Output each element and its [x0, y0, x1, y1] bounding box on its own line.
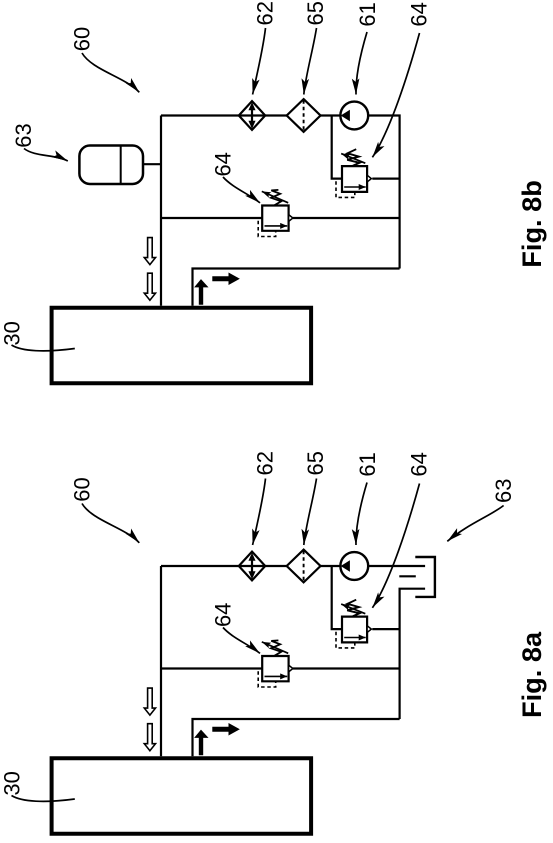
relief valve 64 pilot line (dashed) [258, 671, 276, 687]
relief valve 64 body (bypass) [342, 617, 367, 643]
bypass relief valve outlet seat triangle [367, 626, 371, 633]
filter 65 dashed element [303, 551, 305, 582]
svg-text:63: 63 [491, 478, 516, 502]
wire lower line right segment [293, 667, 400, 669]
svg-text:Fig. 8a: Fig. 8a [516, 631, 547, 718]
wire pump suction line into tank [366, 565, 425, 567]
accumulator 63 [79, 146, 143, 185]
relief valve 64 outlet seat triangle [289, 665, 293, 672]
wire bottom horizontal to box 30 [193, 719, 400, 756]
wire left vertical line [160, 566, 162, 756]
wire top line left segment (passes through filter 62) [161, 114, 287, 116]
bypass relief valve adjust arrow [341, 154, 365, 164]
leader arrow from 63 to tank [447, 506, 503, 542]
svg-text:65: 65 [303, 451, 328, 475]
solid right arrow [213, 724, 239, 735]
hollow gas-flow arrow 2 [144, 273, 155, 300]
wire bypass branch to relief valve [332, 116, 342, 179]
hollow gas-flow arrow 1 [144, 688, 155, 715]
svg-text:61: 61 [355, 452, 380, 476]
relief valve 64 pilot line (dashed) [258, 221, 276, 237]
svg-text:64: 64 [210, 152, 235, 176]
bypass relief valve outlet seat triangle [367, 175, 371, 182]
bypass relief valve spring [347, 600, 359, 617]
leader line from 30 to box (Fig 8a) [12, 796, 75, 802]
wire relief valve outlet to right vertical [372, 178, 399, 180]
pump 61 direction triangle [342, 561, 350, 571]
solid up arrow [195, 280, 207, 304]
leader line from 30 to box [12, 345, 75, 351]
bypass relief valve spring [347, 149, 359, 166]
wire bypass branch to relief valve [332, 566, 342, 629]
svg-text:61: 61 [355, 2, 380, 26]
leader arrow from 65 to filter [304, 28, 317, 95]
filter 65 diamond [287, 550, 321, 583]
tank 63 (open reservoir) [415, 557, 435, 597]
relief valve 64 outlet seat triangle [289, 215, 293, 222]
leader arrow from 62 to filter [253, 28, 266, 95]
leader arrow from middle 64 to relief valve (Fig 8a) [223, 628, 260, 654]
relief valve 64 body (middle) [262, 656, 288, 681]
relief valve 64 internal arrow [265, 225, 288, 227]
relief valve 64 internal arrow [265, 675, 288, 677]
leader arrow from 64 to bypass relief valve [372, 33, 419, 157]
filter 62 inner arrowhead down [249, 121, 255, 127]
tank level line [399, 575, 416, 577]
solid right arrow [213, 273, 239, 284]
filter 65 dashed element [303, 100, 305, 131]
svg-text:65: 65 [303, 1, 328, 25]
bypass relief valve internal arrow [344, 186, 366, 188]
filter 62 inner arrowhead up [249, 103, 255, 109]
svg-text:62: 62 [252, 451, 277, 475]
leader arrow from 64 to bypass relief valve (Fig 8a) [372, 484, 419, 608]
solid up arrow [195, 730, 207, 754]
filter 62 diamond [239, 101, 265, 130]
svg-text:30: 30 [0, 321, 25, 345]
leader arrow from 60 to circuit (Fig 8a) [82, 504, 139, 543]
bypass relief valve pilot line (dashed) [336, 632, 355, 648]
svg-text:30: 30 [0, 771, 25, 795]
hollow gas-flow arrow 1 [144, 238, 155, 265]
svg-text:64: 64 [210, 603, 235, 627]
filter 65 diamond [287, 99, 321, 132]
wire accumulator stub [143, 163, 161, 165]
svg-text:64: 64 [407, 2, 432, 26]
relief valve 64 adjust arrow [262, 642, 288, 653]
reservoir box 30 [52, 308, 312, 384]
leader arrow from 62 to filter (Fig 8a) [253, 479, 266, 546]
leader arrow from 60 to circuit [82, 53, 139, 92]
wire pump outlet to right vertical [366, 116, 399, 269]
wire between filter 65 and pump 61 [320, 114, 342, 116]
filter 62 diamond [239, 552, 265, 581]
filter 62 inner arrow shaft [251, 107, 253, 124]
wire between filter 65 and pump 61 [320, 565, 342, 567]
wire relief valve outlet to right vertical [372, 628, 399, 630]
leader arrow from 65 to filter (Fig 8a) [304, 479, 317, 546]
filter 62 inner arrowhead down [249, 572, 255, 578]
pump 61 circle [340, 552, 368, 580]
bypass relief valve pilot line (dashed) [336, 181, 355, 197]
pump 61 direction triangle [342, 111, 350, 121]
bypass relief valve internal arrow [344, 637, 366, 639]
svg-text:62: 62 [252, 1, 277, 25]
svg-text:60: 60 [70, 27, 95, 51]
accumulator divider line [120, 146, 122, 184]
relief valve 64 spring [271, 190, 281, 205]
leader arrow from middle 64 to relief valve [223, 177, 260, 203]
leader arrow from 63 to accumulator [24, 149, 68, 162]
wire lower line left segment [161, 667, 262, 669]
svg-text:63: 63 [11, 123, 36, 147]
svg-text:Fig. 8b: Fig. 8b [516, 180, 547, 268]
bypass relief valve adjust arrow [341, 604, 365, 614]
leader arrow from 61 to pump (Fig 8a) [356, 483, 367, 546]
relief valve 64 body (middle) [262, 206, 288, 231]
reservoir box 30 [52, 758, 312, 834]
wire bottom horizontal to box 30 [193, 269, 400, 306]
relief valve 64 body (bypass) [342, 166, 367, 192]
wire lower line left segment [161, 217, 262, 219]
filter 62 inner arrowhead up [249, 554, 255, 560]
wire tank return and right vertical [400, 589, 426, 719]
wire top line left segment (passes through filter 62) [161, 565, 287, 567]
leader arrow from 61 to pump [356, 32, 367, 95]
svg-text:60: 60 [70, 477, 95, 501]
relief valve 64 adjust arrow [262, 191, 288, 202]
filter 62 inner arrow shaft [251, 558, 253, 575]
hollow gas-flow arrow 2 [144, 724, 155, 751]
pump 61 circle [340, 102, 368, 130]
svg-text:64: 64 [407, 452, 432, 476]
wire left vertical line [160, 116, 162, 306]
wire lower line right segment [293, 217, 400, 219]
relief valve 64 spring [271, 640, 281, 655]
